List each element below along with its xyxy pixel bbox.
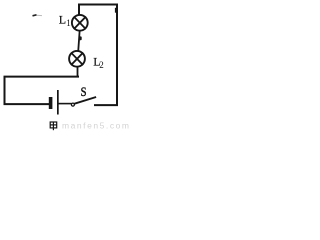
svg-text:1: 1	[66, 18, 71, 28]
svg-text:L: L	[59, 13, 66, 27]
svg-text:2: 2	[99, 60, 104, 70]
svg-text:manfen5.com: manfen5.com	[62, 120, 131, 130]
svg-text:S: S	[81, 84, 87, 99]
